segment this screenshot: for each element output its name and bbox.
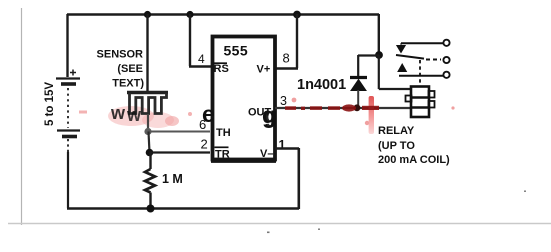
svg-text:2: 2 [201,137,208,152]
wire: down to resistor [149,153,151,169]
watermark pink glow under sensor [79,106,192,128]
battery dotted middle link [67,88,69,128]
wire: OUT pin 3 to relay coil [275,107,411,109]
battery B1 plate - (bottom short thick) [62,135,77,139]
wire: diode anode stub to OUT wire [357,90,359,108]
diode D1 triangle (pointing up) [351,80,366,91]
relay K1 coil body [411,87,429,118]
pin label RS (with overline) [213,63,229,75]
svg-text:(SEE: (SEE [117,63,143,75]
wire: sensor bottom stub [147,114,149,131]
wire: drop to sensor [146,14,148,91]
relay contact terminal circle middle [443,57,449,63]
node: sensor top junction [144,11,151,18]
svg-text:w: w [126,105,142,125]
watermark dark red ww under sensor [110,103,142,125]
battery B1 plate - (top short thick) [61,82,76,86]
svg-text:1 M: 1 M [162,172,183,186]
svg-text:(UP TO: (UP TO [378,140,415,152]
watermark small pink dots [292,98,455,126]
svg-text:V–: V– [260,148,273,160]
relay contact: top throw line [401,42,443,44]
label RELAY (UP TO 200 mA COIL) [378,125,450,166]
svg-text:RELAY: RELAY [378,125,415,137]
battery B1 plate + (bottom long) [57,129,80,131]
svg-text:TEXT): TEXT) [112,78,144,90]
label SENSOR (SEE TEXT) [97,49,145,90]
relay mechanical link (dashed) [419,60,421,85]
node: pin4 top junction [186,11,193,18]
svg-text:g: g [265,105,278,128]
node: pin8 top junction [293,11,301,19]
wire: bottom ground rail [67,207,299,210]
svg-text:3: 3 [280,94,287,108]
wire: to pin 8 [276,14,298,69]
wire: top V+ rail [67,13,379,15]
wire: junction left to diode cathode [358,55,379,77]
relay contact: bottom throw line [399,75,443,77]
relay contact dashes to middle terminal [426,59,441,61]
wire: to pin 2 TR [150,151,211,153]
svg-text:e: e [202,101,215,127]
relay coil left terminal tab [406,96,412,102]
node: TH junction (grey) [144,128,151,135]
wire: to pin 6 TH [148,131,210,133]
battery B1 plate + (top long) [56,77,80,79]
svg-text:1n4001: 1n4001 [297,77,346,93]
node: diode anode on OUT wire [354,104,361,111]
node: diode/coil junction [375,51,383,59]
scan border bottom edge [8,223,551,225]
svg-text:SENSOR: SENSOR [97,49,144,61]
op-amp/timer U1 555 body [213,37,276,160]
relay coil right terminal tab upper [429,91,435,98]
relay contact moving arm arrow (up) [398,64,406,72]
svg-text:V+: V+ [257,64,271,76]
svg-text:200 mA COIL): 200 mA COIL) [378,154,450,166]
wire: battery negative down to ground rail [67,152,69,208]
svg-text:8: 8 [283,51,290,66]
svg-text:5 to 15V: 5 to 15V [44,82,56,126]
relay coil divider bars [410,98,430,108]
scan specks [267,191,526,234]
pin label TR (with overline) [215,147,230,160]
battery plus sign [70,70,76,76]
svg-text:4: 4 [198,52,205,66]
sensor element (interdigitated grid) top bar [127,91,168,94]
watermark dash-dot line on OUT wire [285,104,356,111]
relay coil right terminal tab lower [429,101,435,108]
wire: to pin 4 [189,14,212,67]
svg-text:TH: TH [216,127,231,139]
wire: resistor bottom [149,193,151,209]
wire: TH node down to TR node [149,132,150,153]
svg-text:RS: RS [214,63,229,75]
resistor R1 1M zigzag [145,169,155,193]
relay contact terminal circle top [443,40,449,46]
node: TR junction [146,149,154,157]
node: resistor to ground rail [147,205,155,213]
wire: pin 1 V- to ground rail [275,148,299,209]
wire: junction down to relay coil upper terminal [379,55,411,89]
scan border left edge [21,8,23,225]
wire: left rail down to battery [66,14,68,77]
diode D1 1n4001 cathode bar [350,76,367,79]
battery dotted tail [67,139,69,153]
wire: top rail corner down to relay branch [378,14,380,55]
relay contact slanted arm [396,55,424,59]
relay contact moving arm arrow (down) [397,43,405,53]
watermark red cross t [362,96,379,134]
relay contact terminal circle bottom [443,72,449,78]
svg-text:555: 555 [224,43,249,59]
svg-text:w: w [110,103,126,123]
svg-text:1: 1 [279,138,286,152]
sensor element comb fingers [130,93,167,114]
svg-text:TR: TR [215,149,230,161]
